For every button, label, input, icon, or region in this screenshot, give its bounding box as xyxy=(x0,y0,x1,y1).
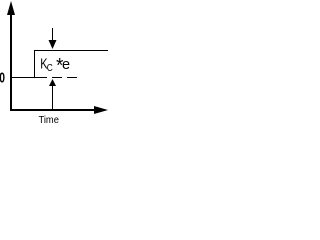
zero level dash 1 xyxy=(52,77,62,78)
step edge connector xyxy=(34,50,35,78)
up dimension arrowhead xyxy=(49,79,56,86)
x-axis arrowhead xyxy=(94,106,108,114)
y-axis xyxy=(10,13,12,111)
svg-text:0: 0 xyxy=(0,70,5,86)
zero level solid line xyxy=(12,77,47,78)
zero level dash 2 xyxy=(67,77,77,78)
down dimension arrow stem xyxy=(52,28,53,41)
down dimension arrowhead xyxy=(49,40,57,49)
step level line xyxy=(34,50,108,51)
svg-text:C: C xyxy=(47,62,53,73)
y-axis arrowhead xyxy=(7,1,15,15)
svg-text:Time: Time xyxy=(39,115,60,125)
x-axis xyxy=(10,109,95,111)
up dimension arrow stem xyxy=(52,86,53,110)
svg-text:e: e xyxy=(62,57,70,73)
